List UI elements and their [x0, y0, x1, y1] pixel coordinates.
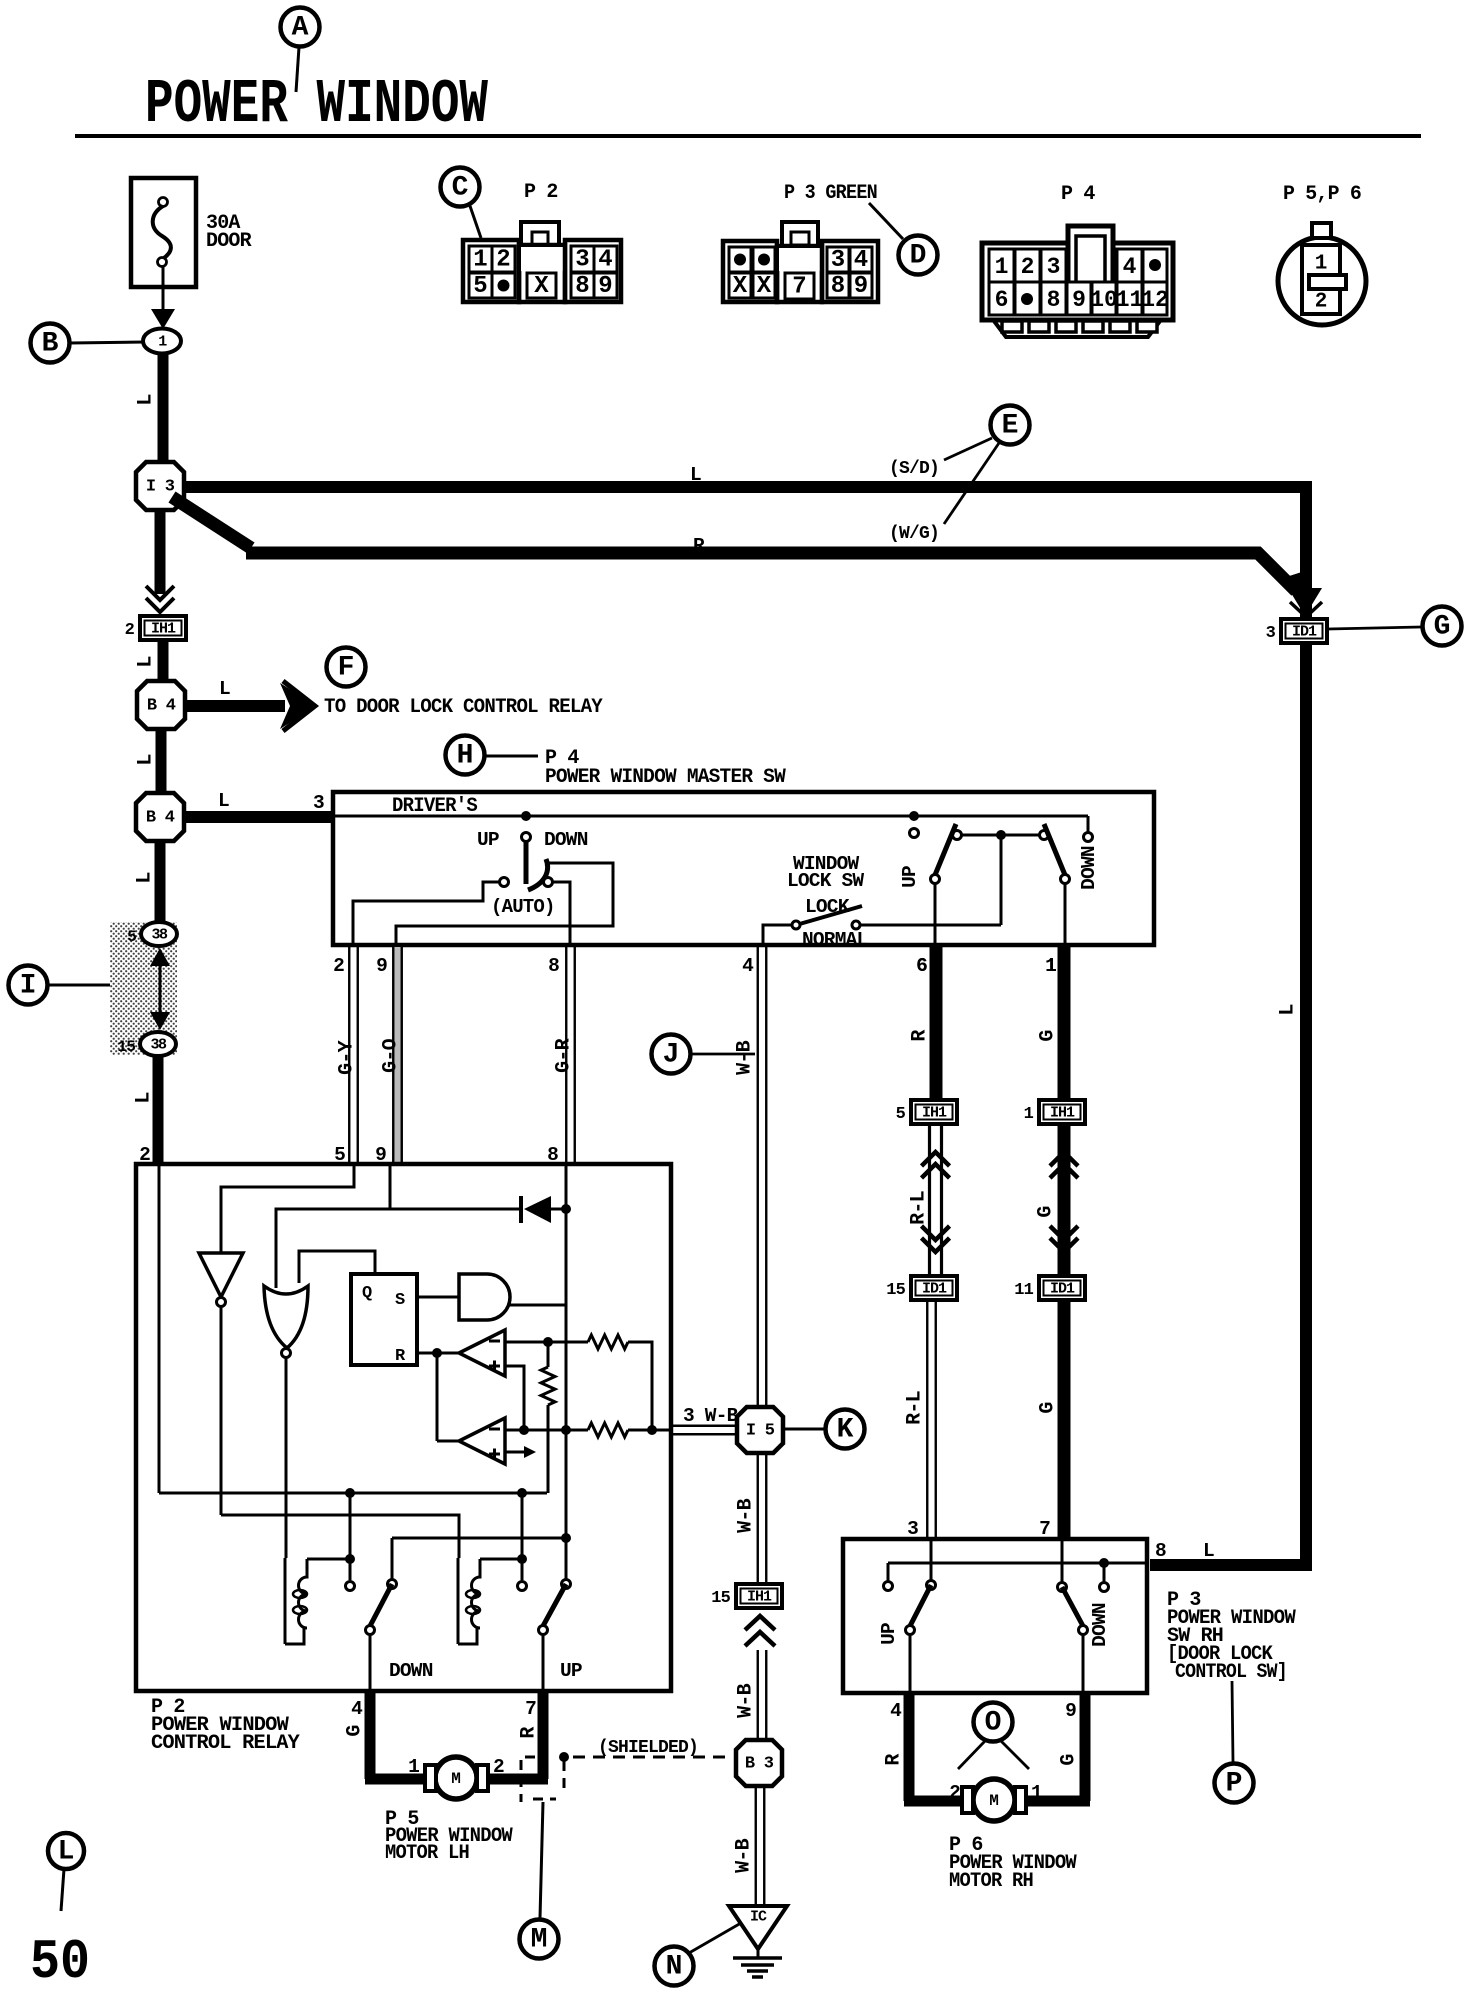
svg-text:DOWN: DOWN — [389, 1660, 433, 1682]
svg-text:1: 1 — [1031, 1782, 1042, 1804]
svg-text:ID1: ID1 — [1050, 1281, 1075, 1298]
svg-text:L: L — [133, 1092, 156, 1103]
svg-text:10: 10 — [1090, 287, 1118, 313]
svg-text:8: 8 — [1155, 1540, 1166, 1562]
svg-text:D: D — [910, 241, 927, 272]
svg-text:4: 4 — [742, 955, 754, 977]
svg-text:11: 11 — [1116, 287, 1144, 313]
svg-text:4: 4 — [890, 1700, 902, 1722]
svg-text:I 3: I 3 — [146, 478, 175, 497]
svg-text:R: R — [909, 1030, 932, 1042]
svg-text:4: 4 — [351, 1698, 363, 1720]
svg-text:5: 5 — [473, 273, 487, 300]
svg-text:B 4: B 4 — [147, 697, 176, 716]
svg-text:L: L — [1277, 1004, 1300, 1015]
svg-text:6: 6 — [916, 955, 927, 977]
svg-text:W-B: W-B — [735, 1683, 758, 1717]
svg-text:M: M — [531, 1925, 548, 1956]
svg-text:2: 2 — [1315, 291, 1328, 314]
svg-text:3: 3 — [1047, 254, 1061, 280]
svg-text:MOTOR LH: MOTOR LH — [385, 1842, 469, 1865]
svg-text:G: G — [1434, 612, 1451, 643]
svg-text:C: C — [452, 173, 469, 204]
svg-text:IH1: IH1 — [922, 1105, 947, 1122]
svg-text:1: 1 — [995, 254, 1009, 280]
svg-text:2: 2 — [496, 247, 510, 274]
svg-text:2: 2 — [333, 955, 344, 977]
svg-text:4: 4 — [854, 247, 868, 274]
svg-text:POWER WINDOW MASTER SW: POWER WINDOW MASTER SW — [545, 766, 786, 789]
svg-text:G: G — [1037, 1402, 1060, 1414]
svg-text:P 2: P 2 — [524, 181, 558, 204]
svg-text:R-L: R-L — [904, 1391, 927, 1425]
svg-text:L: L — [135, 394, 158, 405]
svg-text:R: R — [395, 1347, 406, 1366]
svg-text:6: 6 — [995, 287, 1009, 313]
svg-text:4: 4 — [1123, 254, 1137, 280]
svg-text:X: X — [757, 273, 772, 300]
svg-text:K: K — [837, 1415, 854, 1446]
svg-text:B 3: B 3 — [745, 1755, 774, 1774]
svg-text:5: 5 — [127, 928, 136, 946]
svg-text:5: 5 — [896, 1105, 906, 1124]
svg-text:DOWN: DOWN — [1078, 846, 1100, 890]
svg-text:E: E — [1002, 411, 1019, 442]
svg-text:G: G — [1037, 1030, 1060, 1042]
svg-text:9: 9 — [1072, 287, 1086, 313]
svg-text:8: 8 — [1047, 287, 1061, 313]
svg-text:LOCK SW: LOCK SW — [787, 870, 864, 892]
svg-text:12: 12 — [1141, 287, 1169, 313]
svg-text:W-B: W-B — [735, 1498, 758, 1532]
svg-text:G-Y: G-Y — [336, 1040, 359, 1074]
svg-text:J: J — [663, 1040, 680, 1071]
svg-text:A: A — [292, 13, 309, 44]
svg-text:9: 9 — [375, 1144, 386, 1166]
svg-text:IC: IC — [750, 1909, 767, 1926]
svg-text:P 3 GREEN: P 3 GREEN — [784, 182, 877, 205]
svg-text:L: L — [58, 1837, 75, 1868]
svg-text:S: S — [395, 1291, 405, 1310]
svg-text:7: 7 — [792, 274, 806, 301]
svg-text:7: 7 — [1039, 1518, 1050, 1540]
svg-text:R: R — [693, 535, 705, 557]
svg-text:Q: Q — [362, 1284, 372, 1303]
svg-text:(W/G): (W/G) — [889, 524, 939, 544]
svg-text:CONTROL SW]: CONTROL SW] — [1175, 1661, 1287, 1684]
svg-text:L: L — [134, 872, 157, 883]
svg-text:38: 38 — [151, 927, 168, 944]
svg-text:(S/D): (S/D) — [889, 459, 939, 479]
svg-text:1: 1 — [408, 1756, 419, 1778]
svg-text:38: 38 — [150, 1037, 167, 1054]
svg-text:X: X — [534, 273, 549, 300]
svg-text:3 W-B: 3 W-B — [683, 1405, 739, 1427]
svg-text:UP: UP — [899, 866, 921, 888]
svg-text:P 5,P 6: P 5,P 6 — [1283, 183, 1361, 206]
svg-text:NORMAL: NORMAL — [802, 929, 868, 951]
svg-text:3: 3 — [313, 792, 324, 814]
svg-text:POWER WINDOW: POWER WINDOW — [145, 69, 489, 140]
svg-text:P: P — [1226, 1769, 1243, 1800]
svg-text:M: M — [451, 1770, 461, 1788]
svg-text:TO DOOR LOCK CONTROL RELAY: TO DOOR LOCK CONTROL RELAY — [324, 696, 603, 719]
svg-text:DOOR: DOOR — [206, 230, 252, 253]
svg-text:8: 8 — [547, 1144, 558, 1166]
svg-text:H: H — [457, 741, 474, 772]
svg-text:F: F — [338, 653, 355, 684]
svg-text:9: 9 — [1065, 1700, 1076, 1722]
svg-text:UP: UP — [477, 829, 499, 851]
svg-text:G-R: G-R — [553, 1038, 576, 1072]
svg-text:L: L — [218, 790, 229, 812]
svg-text:G: G — [344, 1725, 367, 1737]
svg-text:I: I — [20, 971, 37, 1002]
svg-text:3: 3 — [575, 247, 589, 274]
svg-text:DOWN: DOWN — [544, 829, 588, 851]
svg-text:2: 2 — [949, 1782, 960, 1804]
svg-text:1: 1 — [1045, 955, 1056, 977]
svg-text:W-B: W-B — [734, 1040, 757, 1074]
svg-text:50: 50 — [30, 1930, 90, 1994]
svg-text:11: 11 — [1014, 1281, 1033, 1300]
svg-text:UP: UP — [560, 1660, 582, 1682]
svg-text:G-O: G-O — [380, 1038, 403, 1072]
svg-text:1: 1 — [1024, 1105, 1034, 1124]
svg-text:ID1: ID1 — [922, 1281, 947, 1298]
svg-text:IH1: IH1 — [1050, 1105, 1075, 1122]
svg-text:9: 9 — [376, 955, 387, 977]
svg-text:IH1: IH1 — [151, 621, 176, 638]
svg-text:8: 8 — [575, 273, 589, 300]
svg-text:B 4: B 4 — [146, 809, 175, 828]
svg-text:B: B — [42, 329, 59, 360]
svg-text:L: L — [135, 754, 158, 765]
svg-text:15: 15 — [711, 1589, 730, 1608]
svg-text:9: 9 — [854, 273, 868, 300]
svg-text:N: N — [666, 1952, 683, 1983]
svg-text:L: L — [1203, 1540, 1214, 1562]
svg-text:(SHIELDED): (SHIELDED) — [598, 1738, 698, 1758]
svg-text:ID1: ID1 — [1292, 624, 1317, 641]
svg-text:R: R — [518, 1727, 541, 1739]
svg-text:X: X — [733, 273, 748, 300]
svg-text:G: G — [1035, 1206, 1058, 1218]
svg-text:9: 9 — [598, 273, 612, 300]
svg-text:W-B: W-B — [733, 1838, 756, 1872]
svg-text:15: 15 — [886, 1281, 905, 1300]
svg-text:DOWN: DOWN — [1089, 1603, 1111, 1647]
svg-text:MOTOR RH: MOTOR RH — [949, 1870, 1033, 1893]
svg-text:2: 2 — [125, 621, 135, 640]
svg-text:5: 5 — [334, 1144, 345, 1166]
svg-text:I 5: I 5 — [746, 1422, 775, 1441]
svg-text:1: 1 — [473, 247, 487, 274]
svg-text:M: M — [989, 1792, 999, 1810]
svg-text:UP: UP — [878, 1623, 900, 1645]
svg-text:IH1: IH1 — [747, 1589, 772, 1606]
svg-text:L: L — [135, 656, 158, 667]
svg-text:3: 3 — [831, 247, 845, 274]
svg-text:R: R — [883, 1754, 906, 1766]
svg-text:P 4: P 4 — [1061, 183, 1095, 206]
svg-text:CONTROL RELAY: CONTROL RELAY — [151, 1732, 300, 1755]
svg-text:(AUTO): (AUTO) — [491, 896, 555, 918]
svg-text:8: 8 — [548, 955, 559, 977]
svg-text:G: G — [1058, 1754, 1081, 1766]
svg-text:L: L — [219, 678, 230, 700]
svg-text:L: L — [690, 464, 701, 486]
svg-text:O: O — [985, 1708, 1002, 1739]
svg-text:2: 2 — [1021, 254, 1035, 280]
svg-text:8: 8 — [831, 273, 845, 300]
svg-text:3: 3 — [907, 1518, 918, 1540]
svg-text:R-L: R-L — [908, 1191, 931, 1225]
svg-text:4: 4 — [598, 247, 612, 274]
svg-text:3: 3 — [1266, 624, 1276, 643]
svg-text:15: 15 — [117, 1038, 135, 1056]
svg-text:7: 7 — [525, 1698, 536, 1720]
svg-text:1: 1 — [1315, 253, 1328, 276]
svg-text:2: 2 — [493, 1756, 504, 1778]
